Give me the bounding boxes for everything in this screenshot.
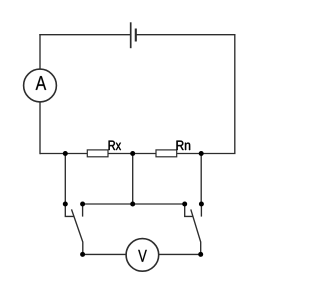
battery B1 short plate: [135, 29, 137, 42]
wire right vertical: [234, 34, 236, 154]
ammeter A1: [24, 69, 57, 102]
node S2 right post: [199, 202, 204, 207]
node on middle rail right: [199, 151, 204, 156]
switch S2 blade: [191, 209, 201, 254]
wire middle rail segment 2 (Rx to mid node): [108, 153, 156, 155]
wire top-right horizontal: [136, 34, 236, 36]
node S1 left post: [63, 202, 68, 207]
node bottom right: [198, 252, 203, 257]
wire left lower vertical: [39, 102, 41, 154]
wire branch right vertical: [200, 154, 202, 205]
label Rx: [109, 141, 121, 150]
battery B1 long plate: [130, 22, 132, 48]
wire left upper vertical: [39, 34, 41, 69]
wire bottom right horizontal: [159, 253, 201, 255]
switch S2 right post stub: [200, 204, 202, 217]
node mid of switch rail: [130, 202, 135, 207]
label Rn: [177, 141, 191, 150]
resistor Rx body: [87, 150, 108, 157]
wire mid rail left (S1 to mid node): [83, 203, 133, 205]
switch S2 fixed contact L-hook: [185, 204, 193, 216]
switch S1 blade: [72, 209, 83, 254]
wire middle rail segment 1: [40, 153, 87, 155]
wire middle rail segment 3 (Rn to right): [177, 153, 236, 155]
label V (voltmeter): [138, 250, 147, 262]
switch S1 fixed contact L-hook: [65, 204, 73, 216]
node on middle rail left: [63, 151, 68, 156]
node bottom left: [80, 252, 85, 257]
switch S1 right post stub: [82, 204, 84, 217]
wire top-left horizontal: [39, 34, 130, 36]
wire bottom left horizontal: [83, 253, 127, 255]
wire branch left vertical: [64, 154, 66, 205]
node S1 right post: [80, 202, 85, 207]
wire mid rail right (mid node to S2): [133, 203, 185, 205]
resistor Rn body: [156, 150, 177, 157]
node S2 left post: [182, 202, 187, 207]
wire branch middle vertical: [132, 154, 134, 205]
label A (ammeter): [36, 76, 47, 90]
voltmeter V1: [126, 239, 159, 272]
node on middle rail center: [130, 151, 135, 156]
